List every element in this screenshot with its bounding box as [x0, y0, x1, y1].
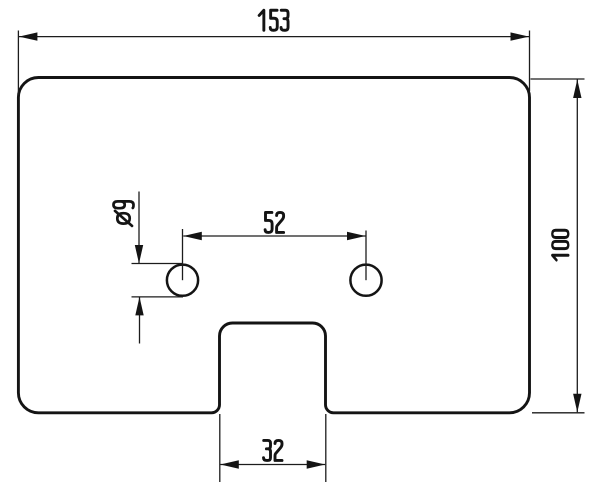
dim 32 dimension line [220, 464, 325, 466]
dim 32 extension line left [219, 414, 221, 482]
dim 153 arrow right [511, 32, 530, 40]
dim dia9 arrow up [135, 297, 143, 316]
dim 100 extension line bottom [532, 412, 585, 414]
dim 100 extension line top [531, 78, 585, 80]
dim 32 arrow right [307, 460, 326, 468]
dim 52 dimension line [183, 235, 365, 237]
hole right [350, 265, 381, 296]
dim 100 arrow up [573, 80, 581, 99]
dim 52 extension line left [182, 229, 184, 280]
dim 52 label [265, 212, 284, 232]
dim 153 extension line left [17, 31, 19, 96]
hole left [167, 265, 198, 296]
dim 52 arrow left [183, 232, 202, 240]
dim dia9 tangent line bottom [132, 296, 184, 298]
dim dia9 lower leader line [139, 297, 141, 344]
dim dia9 upper leader line [138, 192, 140, 264]
dim dia9 label [114, 201, 134, 225]
plate outline with notch [18, 78, 529, 413]
dim dia9 arrow down [135, 245, 143, 264]
dim 52 extension line right [365, 231, 367, 281]
dim 32 extension line right [325, 414, 327, 482]
dim 100 label [552, 230, 568, 260]
dim 153 extension line right [529, 31, 531, 92]
dim 153 dimension line [19, 36, 529, 38]
dim 153 arrow left [19, 32, 38, 40]
dim 100 dimension line [576, 80, 578, 413]
dim 153 label [259, 10, 288, 30]
dim 32 arrow left [220, 460, 239, 468]
dim dia9 tangent line top [132, 263, 184, 265]
dim 32 label [264, 440, 283, 460]
dim 100 arrow down [573, 394, 581, 413]
dim 52 arrow right [347, 232, 366, 240]
